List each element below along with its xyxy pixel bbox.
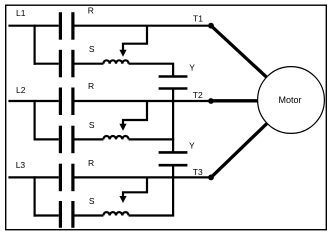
node L1: [16, 8, 26, 18]
wire to S3: [34, 214, 59, 216]
svg-text:S: S: [89, 44, 95, 54]
arrow pointer (phase 1): [119, 26, 147, 57]
svg-text:L3: L3: [16, 160, 26, 170]
wire to S1: [34, 63, 59, 65]
contact Y (phase 1): [159, 77, 188, 89]
contact S (phase 2): [60, 126, 73, 154]
wire S1 to coil: [75, 63, 104, 65]
node L2: [16, 85, 26, 95]
svg-text:L1: L1: [16, 8, 26, 18]
svg-text:R: R: [88, 5, 94, 15]
node T2 junction dot: [208, 98, 214, 104]
label T1: [193, 13, 203, 23]
label Y (phase 2): [189, 141, 195, 151]
wire R1 to T1: [75, 25, 212, 27]
wire coil3 up to T3 line: [129, 177, 174, 215]
svg-text:S: S: [89, 196, 95, 206]
motor lead T3: [211, 124, 267, 178]
motor lead T2: [211, 99, 259, 102]
contact Y (phase 2): [159, 152, 188, 165]
wire branch L3 down: [33, 176, 35, 216]
wire coil2 right: [129, 138, 175, 140]
svg-text:L2: L2: [16, 85, 26, 95]
label Y (phase 1): [189, 63, 195, 73]
label T2: [193, 90, 203, 100]
label T3: [193, 167, 203, 177]
wire to S2: [34, 138, 59, 140]
svg-text:S: S: [89, 120, 95, 130]
reactor coil (phase 3): [103, 212, 128, 215]
label R (phase 3): [88, 158, 94, 168]
reactor coil (phase 2): [103, 136, 128, 139]
label S (phase 3): [89, 196, 95, 206]
wire L1 input: [8, 25, 58, 27]
contact R (phase 1): [60, 12, 73, 40]
svg-text:Y: Y: [189, 63, 195, 73]
motor M: [258, 67, 325, 134]
svg-text:T2: T2: [193, 90, 203, 100]
wire S3 to coil: [75, 214, 104, 216]
wire Y1 to T2 line: [172, 89, 174, 102]
wire S2 to coil: [75, 138, 104, 140]
svg-text:R: R: [88, 81, 94, 91]
svg-text:Motor: Motor: [278, 95, 301, 105]
contact S (phase 3): [60, 201, 73, 228]
contact R (phase 3): [60, 164, 73, 192]
wire branch L1 down: [33, 25, 35, 65]
svg-text:R: R: [88, 158, 94, 168]
label R (phase 1): [88, 5, 94, 15]
wire Y2 to T3 line: [172, 165, 174, 177]
motor lead T1: [211, 26, 267, 78]
wire L2 input: [8, 100, 58, 102]
reactor coil (phase 1): [103, 60, 128, 63]
wire R3 to T3: [75, 176, 212, 178]
node T3 junction dot: [208, 175, 214, 181]
svg-text:T3: T3: [193, 167, 203, 177]
node T1 junction dot: [208, 23, 214, 29]
label S (phase 2): [89, 120, 95, 130]
svg-text:T1: T1: [193, 13, 203, 23]
arrow pointer (phase 2): [119, 101, 147, 131]
wire L3 input: [8, 176, 58, 178]
wire branch L2 down: [33, 100, 35, 141]
wire R2 to T2: [75, 100, 212, 102]
label S (phase 1): [89, 44, 95, 54]
contact S (phase 1): [60, 50, 73, 78]
contact R (phase 2): [60, 88, 73, 116]
wire coil1 to Y1: [129, 64, 174, 77]
arrow pointer (phase 3): [119, 177, 147, 203]
node L3: [16, 160, 26, 170]
svg-text:Y: Y: [189, 141, 195, 151]
label R (phase 2): [88, 81, 94, 91]
wire T2 line down to Y2: [172, 101, 174, 152]
